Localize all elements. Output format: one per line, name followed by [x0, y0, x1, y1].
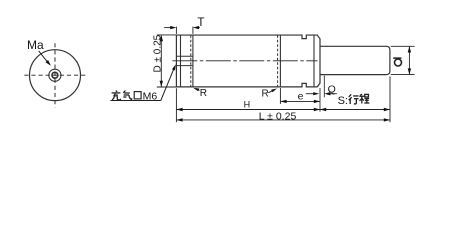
- dimension d top arrow: [408, 46, 411, 52]
- Ma leader line: [39, 51, 49, 63]
- dimension e left arrow: [280, 100, 286, 103]
- rod end extension line for S and L: [389, 76, 391, 122]
- cap hidden line: [190, 35, 192, 86]
- label d bar: [393, 57, 401, 59]
- svg-text:Ma: Ma: [27, 38, 44, 52]
- rod collar extension line: [323, 76, 325, 98]
- M6 hole top line: [176, 55, 193, 57]
- end face extension line: [319, 88, 321, 112]
- e label arrowhead: [313, 92, 319, 95]
- M6 hole bottom line: [176, 65, 193, 67]
- charge port arrowhead: [172, 64, 176, 70]
- Q arrow line: [330, 93, 337, 95]
- dimension S line: [320, 109, 390, 111]
- label stroke glyph xing: [349, 94, 359, 104]
- left extension line for H and L: [175, 88, 177, 122]
- dimension D top arrow: [160, 35, 163, 41]
- dimension T left arrow: [170, 26, 176, 29]
- Q arrowhead: [324, 92, 330, 95]
- svg-text:L ± 0.25: L ± 0.25: [259, 110, 297, 122]
- dimension D extension top: [157, 34, 176, 36]
- dimension S left arrow: [320, 108, 326, 111]
- label charge port glyph chong: [112, 91, 121, 100]
- dimension e line: [280, 100, 320, 102]
- charge port underline: [110, 100, 160, 102]
- dimension T right arrow: [193, 26, 199, 29]
- dimension D bottom arrow: [160, 81, 163, 87]
- piston rod: [320, 46, 390, 74]
- label stroke glyph cheng: [359, 94, 369, 103]
- front view vertical center line: [54, 43, 56, 107]
- dimension d extension bottom: [391, 74, 415, 76]
- front view port outer circle: [49, 69, 61, 81]
- dimension T extension left: [175, 27, 177, 34]
- dimension L line: [176, 119, 390, 121]
- charge port leader: [161, 68, 174, 100]
- cap end line: [192, 35, 194, 87]
- R left leader: [197, 89, 200, 90]
- svg-text:D ± 0.25: D ± 0.25: [152, 34, 163, 72]
- dimension T left line: [164, 27, 170, 29]
- label charge port glyph qi: [123, 91, 132, 100]
- dimension d bottom arrow: [408, 68, 411, 74]
- svg-text:Q: Q: [328, 84, 336, 96]
- label d bowl: [395, 59, 402, 66]
- R left arrowhead: [193, 88, 199, 91]
- dimension T extension right: [192, 27, 194, 34]
- dimension H line: [176, 109, 320, 111]
- svg-text:e: e: [298, 91, 304, 103]
- dimension L left arrow: [176, 118, 182, 121]
- svg-text:R: R: [262, 88, 269, 99]
- svg-text:R: R: [200, 88, 207, 99]
- R right leader: [268, 90, 273, 93]
- cap inner line: [180, 35, 182, 87]
- front view outer circle: [30, 50, 81, 101]
- dimension d extension top: [391, 45, 415, 47]
- dimension e extension left: [279, 88, 281, 104]
- piston hidden line: [277, 35, 279, 86]
- dimension L right arrow: [384, 118, 390, 121]
- front view horizontal center line: [24, 74, 86, 76]
- e label arrow line: [306, 93, 314, 95]
- guide line: [313, 35, 315, 87]
- dimension S right arrow: [384, 108, 390, 111]
- axis center line: [172, 60, 317, 62]
- dimension D extension bottom: [157, 86, 176, 88]
- front view port inner circle: [52, 72, 58, 78]
- svg-text:T: T: [197, 17, 204, 29]
- dimension T right line: [198, 27, 201, 29]
- dimension e right arrow: [314, 100, 320, 103]
- label charge port glyph kou: [134, 92, 141, 99]
- svg-text:S:: S:: [338, 95, 348, 107]
- dimension H left arrow: [176, 108, 182, 111]
- piston line: [279, 35, 281, 87]
- dimension D line: [160, 35, 162, 86]
- cylinder body outline: [176, 35, 320, 87]
- Ma arrowhead: [46, 60, 51, 66]
- dimension d line: [408, 46, 410, 74]
- svg-text:H: H: [244, 100, 251, 110]
- dimension H right arrow: [314, 108, 320, 111]
- R right arrowhead: [271, 88, 277, 92]
